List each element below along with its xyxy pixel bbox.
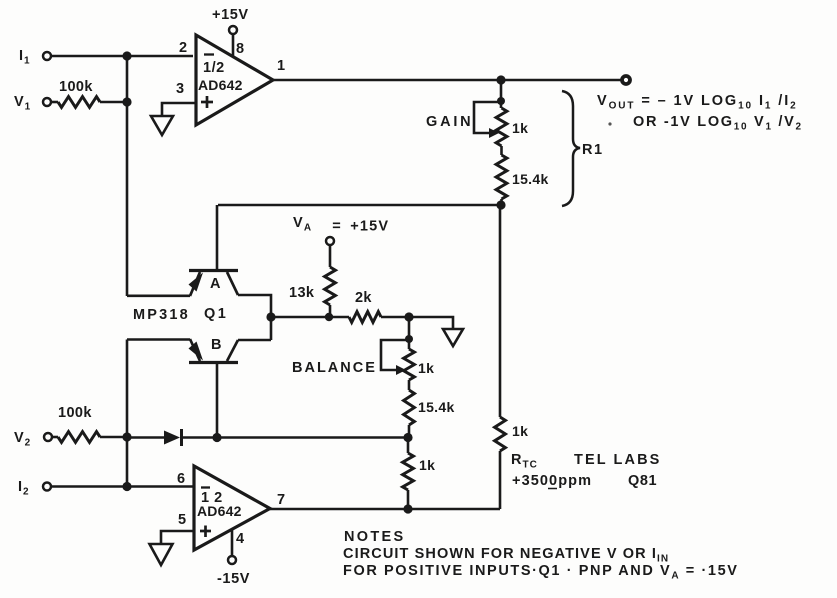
pin 3 label	[176, 81, 185, 97]
svg-text:NOTES: NOTES	[344, 529, 405, 545]
label VOUT equation line 2	[633, 114, 803, 133]
svg-text:-15V: -15V	[217, 571, 250, 587]
wire Q1A collector	[238, 295, 271, 340]
svg-text:1k: 1k	[418, 360, 434, 376]
svg-text:4: 4	[236, 531, 245, 547]
svg-text:100k: 100k	[59, 79, 93, 95]
svg-text:A: A	[210, 276, 221, 292]
svg-text:1k: 1k	[512, 423, 528, 439]
wire I2 to U1B pin 6	[51, 485, 193, 488]
junction Q1B base/V2 line	[212, 433, 221, 442]
svg-text:1: 1	[277, 58, 286, 74]
label Q1	[204, 306, 228, 322]
pin 1 label	[277, 58, 286, 74]
wire U1B output	[270, 508, 500, 511]
transistor Q1A	[189, 271, 239, 297]
junction R1 bottom	[496, 200, 505, 209]
junction 13k bottom	[325, 313, 333, 321]
pin 4 label	[236, 531, 245, 547]
svg-text:2k: 2k	[355, 290, 372, 306]
op-amp U1B 1/2 AD642	[194, 466, 270, 550]
label TEL LABS	[574, 452, 661, 468]
junction balance bottom	[403, 433, 412, 442]
junction V1/node	[122, 97, 131, 106]
wire V2/I2 node vertical	[126, 340, 129, 488]
ground (U1A non-inverting input)	[151, 116, 173, 135]
svg-text:15.4k: 15.4k	[418, 399, 455, 415]
wire I1 to op-amp U1A pin 2	[51, 55, 193, 58]
resistor 2k	[349, 290, 381, 322]
svg-text:2: 2	[179, 40, 188, 56]
wire R1 node to Q1A base	[218, 204, 501, 207]
wire Q1B collector	[238, 339, 271, 342]
notes line 1	[343, 546, 669, 565]
label BALANCE	[292, 360, 377, 376]
svg-text:+15V: +15V	[212, 7, 249, 23]
svg-text:13k: 13k	[289, 285, 315, 301]
svg-text:CIRCUIT SHOWN FOR NEGATIVE V O: CIRCUIT SHOWN FOR NEGATIVE V OR IIN	[343, 546, 669, 565]
ground (mid)	[443, 329, 463, 346]
label VOUT equation line 1	[597, 93, 798, 112]
junction Q1 collectors	[266, 312, 275, 321]
supply +15V terminal (pin 8)	[212, 7, 249, 57]
svg-text:TEL LABS: TEL LABS	[574, 452, 661, 468]
resistor 1k (lower divider)	[403, 437, 436, 509]
svg-text:1k: 1k	[512, 120, 528, 136]
svg-text:Q1: Q1	[204, 306, 228, 322]
svg-text:7: 7	[277, 492, 286, 508]
op-amp U1A 1/2 AD642	[196, 35, 273, 125]
junction 2k/balance	[404, 312, 413, 321]
wire 15.4k to node	[500, 199, 503, 205]
wire Q1B emitter	[127, 338, 190, 341]
svg-text:8: 8	[236, 41, 245, 57]
supply VA terminal	[293, 215, 389, 267]
diode D1	[164, 429, 182, 446]
svg-text:3: 3	[176, 81, 185, 97]
svg-text:100k: 100k	[58, 405, 92, 421]
wire Q1B base lead	[216, 363, 219, 438]
svg-text:5: 5	[178, 512, 187, 528]
input terminal I2	[18, 479, 51, 498]
wire balance top	[408, 317, 411, 349]
junction balance wiper	[405, 335, 413, 343]
junction gain pot top	[497, 97, 505, 105]
wire node down to Q1A emitter	[126, 56, 129, 296]
label RTC	[511, 452, 538, 471]
junction output/R1	[496, 75, 505, 84]
junction output/1k	[403, 504, 412, 513]
input terminal I1	[19, 48, 51, 67]
pin 5 label	[178, 512, 187, 528]
wire diode to balance bottom	[181, 436, 408, 439]
brace R1	[562, 91, 604, 206]
resistor 100k (V2 input)	[52, 405, 127, 442]
label Q81	[628, 473, 657, 489]
resistor RTC 1k	[495, 417, 529, 509]
svg-text:BALANCE: BALANCE	[292, 360, 377, 376]
label +3500ppm	[512, 473, 592, 489]
svg-text:MP318: MP318	[133, 307, 190, 323]
wire output node down to pot	[500, 80, 503, 108]
svg-text:AD642: AD642	[198, 77, 243, 93]
potentiometer 1k GAIN (R1 top)	[496, 108, 528, 146]
balance pot wiper	[381, 340, 409, 375]
wire U1A output	[273, 79, 623, 82]
resistor 100k (V1 input)	[51, 79, 127, 107]
wire RTC vertical	[499, 205, 502, 417]
notes line 2	[343, 563, 739, 582]
svg-text:1k: 1k	[419, 457, 435, 473]
resistor 15.4k (balance)	[404, 390, 455, 437]
node I1/V1 junction	[122, 51, 131, 60]
pin 6 label	[177, 471, 186, 487]
wire collectors to 2k	[271, 316, 349, 319]
pin 7 label	[277, 492, 286, 508]
wire pin 3 to ground	[162, 103, 196, 115]
svg-text:15.4k: 15.4k	[512, 171, 549, 187]
wire pot to 15.4k	[500, 146, 503, 155]
supply -15V terminal (pin 4)	[217, 529, 250, 587]
wire Q1A emitter	[127, 294, 190, 297]
svg-text:GAIN: GAIN	[426, 114, 473, 130]
potentiometer 1k BALANCE	[404, 349, 435, 380]
wire pot to 15.4k (balance)	[408, 380, 411, 390]
gain pot wiper	[474, 102, 501, 138]
wire pin 5 to ground	[161, 531, 194, 543]
junction I2 node	[122, 482, 131, 491]
transistor Q1B	[189, 337, 239, 363]
pin 8 label	[236, 41, 245, 57]
svg-text:R1: R1	[582, 142, 604, 158]
label GAIN	[426, 114, 473, 130]
input terminal V2	[14, 430, 52, 449]
svg-text:Q81: Q81	[628, 473, 657, 489]
svg-text:B: B	[211, 337, 222, 353]
pin 2 label	[179, 40, 188, 56]
label MP318	[133, 307, 190, 323]
svg-text:6: 6	[177, 471, 186, 487]
wire 2k to ground	[381, 317, 453, 329]
junction V2 node	[122, 432, 131, 441]
output terminal VOUT	[622, 76, 630, 84]
svg-text:FOR POSITIVE INPUTS·Q1 · PNP: FOR POSITIVE INPUTS·Q1 · PNP AND VA = ·1…	[343, 563, 739, 582]
wire Q1A base lead	[216, 205, 219, 270]
notes title	[344, 529, 405, 545]
input terminal V1	[14, 94, 51, 113]
ground (U1B non-inverting input)	[150, 544, 173, 565]
resistor 15.4k (R1 bottom)	[496, 155, 548, 199]
svg-text:+3500ppm: +3500ppm	[512, 473, 592, 489]
wire V2 to diode	[127, 436, 165, 439]
resistor 13k	[289, 267, 335, 317]
svg-text:OR -1V LOG10 V1 /V2: OR -1V LOG10 V1 /V2	[633, 114, 803, 133]
svg-text:AD642: AD642	[197, 503, 242, 519]
stray scan dot	[608, 122, 611, 125]
svg-text:1/2: 1/2	[203, 60, 225, 76]
